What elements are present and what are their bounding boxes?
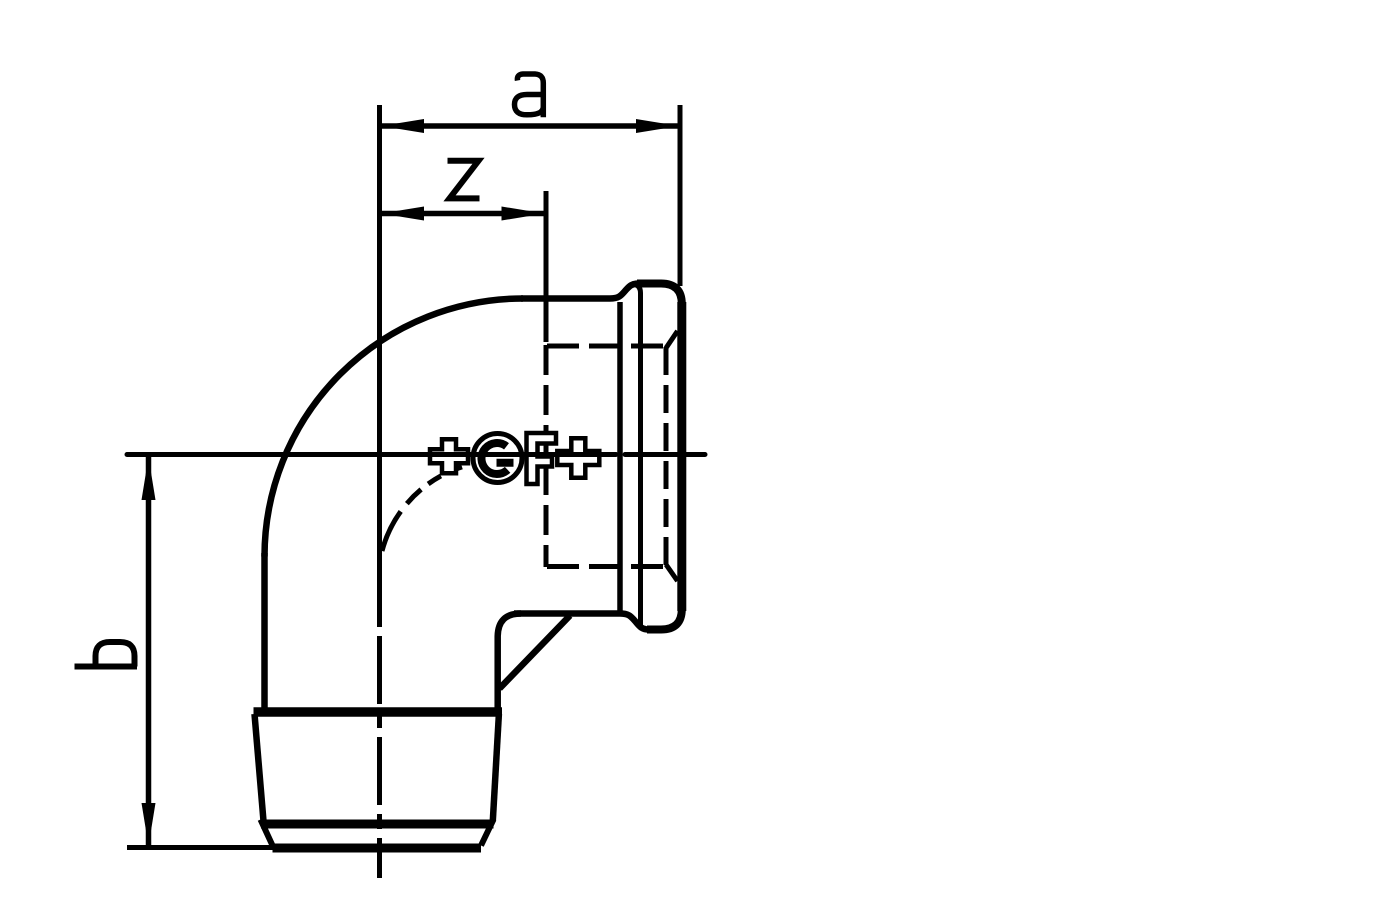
label z [448,161,480,199]
flange band line [635,285,641,629]
male thread step line [254,707,503,717]
rib diagonal [500,616,571,689]
logo F letter [527,433,557,484]
body bottom line with flange bump [514,614,649,630]
dimension a extension line right [678,105,683,286]
GF logo [430,433,599,484]
label a [515,74,544,117]
body left edge [261,553,268,714]
vertical centerline lower (dash-dot) [377,612,382,878]
dimension line z [381,211,545,217]
arrowhead a left [381,119,424,133]
dimension line a [381,123,679,129]
hidden bore bend arc (dashed) [382,464,475,552]
dimension line b [146,457,152,846]
label b (rotated) [75,642,138,667]
socket face line [617,302,623,611]
hidden thread line top (dashed) [547,344,667,349]
logo right cross [557,438,599,478]
arrowhead b bottom [142,803,156,846]
male thread chamfer line [261,820,494,829]
arrowhead b top [142,457,156,500]
dimension z extension line [544,191,549,342]
body top line with flange bump [521,284,639,299]
logo G circle [473,434,522,483]
thread chamfer edge bottom [666,565,678,582]
hidden bore line in socket (dashed vertical) [664,347,669,565]
body right edge with corner [498,614,521,715]
arrowhead z right [502,207,545,221]
vertical centerline upper (extension line for a and z) [377,105,382,612]
arrowhead z left [381,207,424,221]
male thread right edge [493,714,499,821]
socket flange outline (capsule) [637,284,682,630]
logo G letter [481,443,507,474]
socket flange right edge reinforcement [677,302,686,611]
arrowhead a right [636,119,679,133]
male thread chamfer corner right [481,820,494,846]
male thread left edge [255,714,264,821]
male thread bottom face [273,844,482,853]
outer bend arc [265,299,524,557]
horizontal centerline [127,452,616,457]
male thread chamfer corner left [261,820,273,846]
hidden thread line bottom (dashed) [547,564,667,569]
logo left cross [430,439,468,473]
bottom extension line [127,845,273,850]
thread chamfer edge top [666,331,678,348]
hidden thread depth line (dashed vertical) [544,345,549,567]
